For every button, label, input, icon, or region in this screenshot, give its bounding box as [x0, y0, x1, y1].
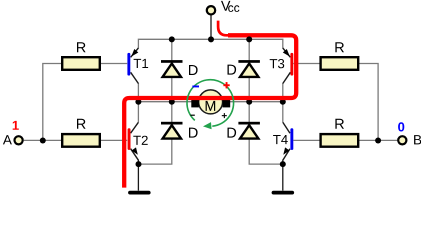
node dot: motor row at T2 column	[135, 99, 141, 105]
node dot: T4 emitter junction	[280, 161, 286, 167]
ground right	[272, 191, 295, 195]
label: plus polarity (black) below right brush	[222, 113, 227, 118]
ground left	[128, 191, 151, 195]
wire: lower-left diode column and return	[139, 102, 172, 164]
label: plus polarity (red) above right brush	[223, 82, 229, 88]
wire: highlighted current path Vcc through T3, motor, T2 to ground	[218, 21, 229, 36]
node dot: top rail at Vcc	[208, 36, 214, 42]
wire: T1 base lead	[101, 63, 127, 65]
transistor T2 (npn, conducting, red)	[128, 122, 148, 160]
label: minus polarity (blue) above left brush	[192, 86, 199, 88]
diode D upper-left	[161, 60, 198, 77]
diode D lower-right	[228, 122, 260, 139]
node dot: T2 emitter junction	[136, 161, 142, 167]
wire: T2 base lead	[101, 139, 127, 141]
wire: upper-left diode column	[171, 39, 173, 101]
terminal Vcc	[207, 1, 240, 15]
node dot: top rail at left diode column	[169, 36, 175, 42]
terminal B	[398, 122, 421, 144]
resistor R upper-right	[321, 42, 359, 70]
wire: motor row	[138, 101, 282, 103]
wire: T3 base lead	[293, 63, 320, 65]
wire: T4 emitter to right ground	[282, 160, 284, 191]
node dot: motor row at T4 column	[280, 99, 286, 105]
rotation arrow around motor	[187, 80, 234, 130]
resistor R lower-right	[321, 119, 359, 147]
wire: node B branch up to upper-right resistor	[359, 64, 378, 141]
terminal A	[3, 121, 23, 144]
diode D upper-right	[228, 60, 260, 77]
transistor T3 (pnp, conducting, red)	[270, 48, 294, 84]
wire: upper-right diode column	[248, 39, 250, 101]
wire: T2 emitter to left ground	[137, 160, 139, 191]
wire: top supply rail	[138, 39, 282, 48]
transistor T1 (pnp, off, blue)	[127, 48, 148, 84]
wire: T3 emitter / T4 collector column	[282, 83, 284, 122]
motor M1 body	[191, 90, 230, 114]
node dot: motor row at left diode column	[169, 99, 175, 105]
wire: A terminal to lower-left resistor	[24, 139, 62, 141]
label: minus polarity (black) below left brush	[190, 115, 194, 116]
resistor R lower-left	[62, 119, 100, 147]
diode D lower-left	[161, 122, 198, 139]
transistor T4 (npn, off, blue)	[273, 122, 293, 160]
wire: node A branch up to upper-left resistor	[43, 64, 62, 141]
node dot: top rail at right diode column	[246, 36, 252, 42]
wire: Vcc stub	[210, 15, 212, 39]
wire: T4 base lead	[293, 139, 320, 141]
wire: T1 emitter / T2 collector column	[137, 83, 139, 122]
wire: lower-right diode column and return	[249, 102, 282, 164]
node dot: node A junction	[40, 138, 46, 144]
resistor R upper-left	[62, 42, 100, 70]
node dot: node B junction	[375, 138, 381, 144]
wire: B terminal to lower-right resistor	[359, 139, 397, 141]
node dot: motor row at right diode column	[246, 99, 252, 105]
